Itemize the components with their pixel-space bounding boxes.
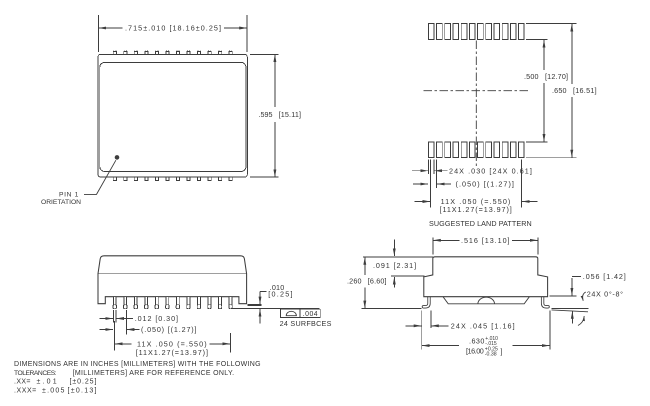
svg-text:24X .045 [1.16]: 24X .045 [1.16] [451,321,516,330]
svg-text:±.005: ±.005 [42,388,66,395]
dim .500 line+arrows [543,40,545,142]
24 surfaces label [280,319,332,328]
dim .650 line+arrows [571,24,573,157]
dim .045 arrows [406,325,449,327]
svg-text:.004: .004 [303,311,318,318]
svg-text:.650: .650 [552,86,567,95]
svg-text:.595: .595 [259,110,273,119]
dim .091 ext bottom [391,275,425,277]
dim .091 ext top [363,256,433,258]
dim .516 text [461,236,511,245]
svg-text:[11X1.27(=13.97)]: [11X1.27(=13.97)] [136,348,209,357]
dim .650 ext lines [526,24,577,158]
side ext lines [113,310,230,353]
svg-text:TOLERANCES:: TOLERANCES: [14,370,57,377]
dim (.050) side arrows [100,329,140,331]
svg-text:.XX=: .XX= [14,379,31,386]
dim 24X .030 arrows [412,170,448,172]
dim .260 text [347,277,387,286]
svg-text:.500: .500 [524,72,539,81]
dim .045 ext lines [422,311,431,350]
dim .630 ext right [549,311,551,350]
svg-text:[±0.13]: [±0.13] [68,388,98,395]
pin 1 dot [115,155,120,160]
side view body [98,256,247,304]
end view body [424,257,548,297]
svg-text:24X .030 [24X 0.61]: 24X .030 [24X 0.61] [449,166,533,175]
land ext lines [428,160,521,208]
flatness value [303,311,318,318]
seating plane sloped line [552,310,589,312]
centerline horizontal [424,90,529,92]
end view recess [443,297,529,304]
dim .010 up arrow [259,309,261,323]
end view dome [478,297,495,304]
notes line4 [14,388,98,395]
svg-text:±.01: ±.01 [37,379,59,386]
dim angle text [587,290,624,299]
dim .516 line+arrows [433,239,537,241]
dim .650 text [552,86,597,95]
dim 11X .050 arrows [415,201,538,203]
dim .595 line+arrows [274,54,276,177]
dim .500 text [524,72,568,81]
svg-text:24X 0°-8°: 24X 0°-8° [587,290,624,299]
dim (.050) side text [141,325,197,334]
foot plane line [552,307,589,309]
svg-text:.630: .630 [469,337,485,346]
svg-text:.260: .260 [347,277,362,286]
svg-text:PIN 1: PIN 1 [59,191,79,198]
dim angle leader arc2 [578,316,584,326]
dim .715 ext lines [99,15,247,52]
notes line1 [14,361,261,368]
end view right lead [543,295,549,307]
top view outer body [98,54,247,177]
body plane ext right [550,295,577,297]
dim (.050) arrows [413,183,451,185]
notes line2 [14,370,234,377]
notes line3 [14,379,97,386]
svg-text:(.050) [(1.27)]: (.050) [(1.27)] [141,325,197,334]
svg-text:[±0.25]: [±0.25] [70,379,98,386]
dim (.050) text [456,180,516,189]
svg-text:.012 [0.30]: .012 [0.30] [135,314,179,323]
dim .045 text [451,321,516,330]
dim 11X .050 side text [136,339,209,357]
svg-text:[12.70]: [12.70] [545,72,568,81]
dim .715 line+arrows [99,27,247,29]
land pattern lower pads [428,142,524,158]
dim .500 ext lines [526,40,548,143]
svg-text:24 SURFBCES: 24 SURFBCES [280,319,332,328]
svg-text:[11X1.27(=13.97)]: [11X1.27(=13.97)] [440,205,513,214]
dim 11X .050 side arrows [115,343,230,345]
pin 1 leader [84,160,116,194]
dim 24X .030 text [449,166,533,175]
svg-text:.091 [2.31]: .091 [2.31] [373,261,417,270]
dim .260 line+arrows [364,257,366,308]
svg-text:[0.25]: [0.25] [268,290,293,299]
pin 1 label [41,191,81,206]
flatness frame [280,309,320,317]
dim .595 ext lines [250,54,279,177]
svg-text:ORIETATION: ORIETATION [41,199,81,206]
dim angle leader arc1 [583,292,586,301]
lead tip plane thick line [248,304,262,306]
dim .516 ext lines [433,238,538,255]
dim .010 text [268,283,293,298]
dim .630 line+arrows [422,345,549,347]
svg-text:-0.38: -0.38 [485,352,497,358]
dim .630 text [466,336,503,358]
dim .012 text [135,314,179,323]
dim .010 down arrow [260,292,267,305]
land pattern upper pads [428,24,524,40]
top view inner body [100,62,246,171]
svg-text:.516 [13.10]: .516 [13.10] [461,236,511,245]
svg-text:(.050) [(1.27)]: (.050) [(1.27)] [456,180,516,189]
svg-text:[16.51]: [16.51] [573,86,597,95]
dim .056 up arrow [571,311,573,323]
dim .056 down arrow [572,276,581,295]
dim 11X .050 text [440,197,513,214]
svg-text:]: ] [501,347,503,356]
svg-text:[16.00: [16.00 [466,346,484,355]
svg-text:[15.11]: [15.11] [279,110,302,119]
svg-text:DIMENSIONS ARE IN INCHES [: DIMENSIONS ARE IN INCHES [MILLIMETERS] W… [14,361,261,368]
top view pins lower row [113,177,232,181]
svg-text:.056 [1.42]: .056 [1.42] [583,272,627,281]
centerline vertical [475,41,477,169]
seating plane line [232,307,319,309]
side view pins [113,297,232,309]
dim .091 top arrow [393,240,395,256]
svg-text:[MILLIMETERS] ARE FOR REFER: [MILLIMETERS] ARE FOR REFERENCE ONLY. [73,370,235,377]
land pattern title [429,219,532,228]
svg-text:.715±.010 [18.16±0.25]: .715±.010 [18.16±0.25] [125,24,222,33]
dim .595 text [259,110,302,119]
svg-text:.XXX=: .XXX= [14,388,37,395]
top view pins upper row [113,51,232,55]
dim .056 text [583,272,627,281]
dim .715 text [125,24,222,33]
dim .091 text [373,261,417,270]
dim .012 arrows [100,318,134,320]
dim .091 bottom arrow [393,277,395,288]
dim .260 ext bottom [362,308,422,310]
svg-text:SUGGESTED LAND PATTERN: SUGGESTED LAND PATTERN [429,219,532,228]
svg-text:[6.60]: [6.60] [368,277,387,286]
end view left lead [423,295,429,307]
